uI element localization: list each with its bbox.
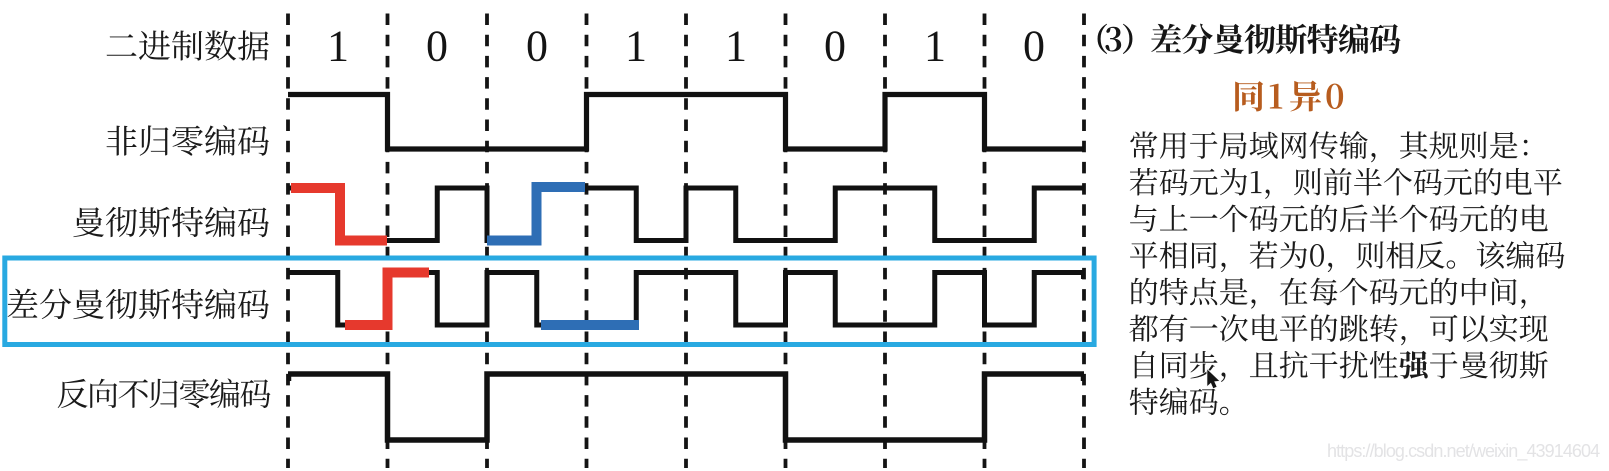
svg-text:https://blog.csdn.net/weixin_4: https://blog.csdn.net/weixin_43914604: [1327, 441, 1600, 462]
svg-text:1: 1: [327, 22, 349, 71]
binary data digits 1 0 0 1 1 0 1 0: [327, 22, 1045, 71]
differential Manchester encoding waveform: [288, 273, 1084, 326]
row label: inverted NRZ 反向不归零编码: [58, 378, 271, 408]
blue highlight box around differential Manchester row: [5, 258, 1094, 345]
paragraph line 7b: [1430, 351, 1548, 378]
row label: Manchester 曼彻斯特编码: [73, 207, 269, 238]
inverted NRZ end tick: [1081, 374, 1086, 381]
Manchester encoding waveform: [288, 188, 1084, 241]
row label: NRZ 非归零编码: [107, 125, 269, 156]
row label: binary data 二进制数据: [107, 30, 269, 60]
heading (3) 差分曼彻斯特编码: [1098, 24, 1401, 54]
orange slogan 同1异0: [1235, 81, 1343, 112]
paragraph line 1: [1130, 131, 1527, 162]
paragraph line 2: [1130, 168, 1562, 199]
inverted NRZ start tick: [287, 374, 292, 381]
mouse cursor arrow: [1207, 370, 1219, 389]
red highlight on diff-Manchester: [345, 273, 429, 326]
paragraph line 8: [1130, 387, 1229, 415]
svg-text:1: 1: [625, 22, 647, 71]
blue highlight on diff-Manchester: [541, 320, 639, 330]
paragraph line 5: [1131, 278, 1525, 309]
svg-text:0: 0: [526, 22, 548, 71]
paragraph line 3: [1130, 204, 1548, 232]
svg-text:0: 0: [824, 22, 846, 71]
red highlight on Manchester bit 1: [291, 188, 387, 241]
svg-text:0: 0: [1023, 22, 1045, 71]
paragraph line 4: [1130, 241, 1564, 272]
svg-text:1: 1: [924, 22, 946, 71]
NRZ waveform (non-return-to-zero): [288, 95, 1084, 150]
differential Manchester end tick: [1081, 273, 1085, 280]
bold 强: [1399, 351, 1427, 379]
paragraph line 6: [1129, 314, 1547, 345]
blue highlight on Manchester bit 3: [487, 187, 585, 241]
inverted (differential) NRZ waveform: [288, 374, 1084, 440]
svg-text:1: 1: [725, 22, 747, 71]
paragraph line 7a: [1135, 351, 1398, 382]
dashed bit-cell boundary grid lines: [288, 14, 1084, 469]
row label: differential Manchester 差分曼彻斯特编码: [8, 289, 269, 320]
svg-text:0: 0: [426, 22, 448, 71]
